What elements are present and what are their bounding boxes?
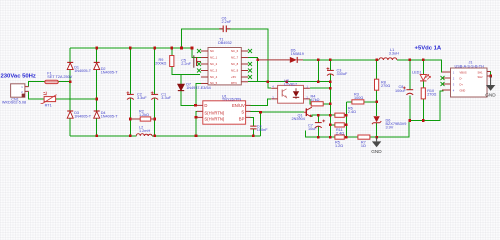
connector CN1 — [2, 84, 29, 105]
wire LED1 R10 chain — [422, 60, 424, 121]
svg-text:EN/UV: EN/UV — [232, 103, 245, 108]
resistor R9 — [155, 56, 174, 67]
inductor L2 — [136, 126, 152, 136]
svg-text:270Ω: 270Ω — [381, 84, 390, 88]
capacitor C6 — [219, 16, 232, 32]
wire U2 pin3 jog to R4 — [310, 99, 311, 104]
wire bridge column2 mid — [96, 70, 98, 111]
junction AC2 — [95, 98, 98, 101]
svg-text:WKDS02-5.08: WKDS02-5.08 — [2, 101, 26, 105]
svg-text:DB4932: DB4932 — [218, 41, 232, 45]
svg-text:SH1: SH1 — [478, 70, 484, 74]
zener diode D6 — [372, 116, 407, 129]
svg-text:SH2: SH2 — [478, 75, 484, 79]
junction vertical shunt mid row left — [329, 124, 332, 127]
junction D5 anode corner — [256, 59, 259, 62]
LED LED1 — [412, 71, 431, 81]
svg-text:1Ω: 1Ω — [361, 144, 366, 148]
svg-text:2.2nF: 2.2nF — [222, 20, 232, 24]
no-connect X marks T1 right pins — [248, 49, 252, 79]
wire R9 bottom to clamp node — [172, 67, 200, 75]
junction ground rail R10 — [422, 119, 425, 122]
inductor L1 — [379, 48, 399, 60]
wire top DC+ rail — [70, 47, 192, 49]
junction R2 left — [129, 118, 132, 121]
svg-text:NC_1: NC_1 — [210, 56, 218, 60]
svg-text:+5Vdc 1A: +5Vdc 1A — [415, 46, 442, 52]
junction Q1 base tap — [259, 111, 262, 114]
svg-text:NC_8: NC_8 — [231, 62, 239, 66]
junction AC1 — [69, 80, 72, 83]
svg-text:LTV817: LTV817 — [284, 82, 297, 86]
svg-text:1N5819: 1N5819 — [291, 52, 304, 56]
capacitor C4 — [250, 124, 268, 131]
junction +5V rail R8 — [375, 59, 378, 62]
svg-text:NC_6: NC_6 — [231, 49, 239, 53]
svg-text:NC_7: NC_7 — [231, 56, 239, 60]
svg-text:1N4005-T: 1N4005-T — [74, 114, 92, 118]
svg-text:47kΩ: 47kΩ — [311, 98, 320, 102]
resistor R6 shunt top — [335, 107, 356, 118]
wire secondary ground rail with stub — [306, 91, 444, 137]
junction ground rail shunt right — [345, 136, 348, 139]
junction rail R9 — [171, 47, 174, 50]
svg-text:RT1: RT1 — [45, 104, 52, 108]
junction feedback C6 tap — [267, 80, 270, 83]
svg-text:1N4005-T: 1N4005-T — [101, 114, 119, 118]
wire C1 bottom through R2 node to bottom rail — [154, 98, 156, 136]
junction ground rail C7 — [317, 136, 320, 139]
junction vertical shunt top row left — [329, 114, 332, 117]
wire C7 top lead — [317, 115, 319, 122]
junction ground rail D6 GND — [375, 136, 378, 139]
wire T1 pin6 to U1 drain — [196, 84, 201, 106]
resistor R10 — [421, 88, 436, 99]
capacitor C2 — [127, 91, 148, 100]
junction ground rail shunt left — [329, 136, 332, 139]
wire C3 top lead — [329, 60, 331, 70]
wire C6 bypass branch up and across — [182, 29, 268, 82]
junction R3 to zener chain — [375, 101, 378, 104]
wire rail corner down to T1 pin2 — [192, 48, 201, 58]
wire bridge column2 top — [96, 48, 98, 62]
svg-text:GND: GND — [485, 92, 496, 97]
wire shunt right vertical — [345, 102, 347, 137]
svg-text:RTN: RTN — [231, 81, 237, 85]
junction shunt top row right — [345, 114, 348, 117]
svg-text:NC_4: NC_4 — [210, 75, 218, 79]
wire R8 zener chain — [376, 60, 378, 137]
diode D4 — [94, 111, 119, 119]
junction rail C6 branch — [180, 47, 183, 50]
svg-text:1N4005-T: 1N4005-T — [74, 69, 92, 73]
ground symbol USB shield — [485, 76, 496, 97]
wire U1 source pins to bottom rail — [195, 111, 198, 135]
svg-text:10uF: 10uF — [308, 127, 317, 131]
svg-text:BP: BP — [239, 117, 245, 122]
svg-text:3.3uF: 3.3uF — [137, 96, 147, 100]
wire bridge column2 bottom — [96, 118, 98, 135]
junction rail C1 — [153, 47, 156, 50]
wire R4 right lead to vertical — [323, 103, 330, 105]
svg-text:LED1: LED1 — [412, 71, 422, 75]
wire bridge column1 top — [69, 48, 71, 62]
svg-text:230Vac 50Hz: 230Vac 50Hz — [1, 73, 36, 79]
svg-text:1N4937-E3/54: 1N4937-E3/54 — [186, 86, 211, 90]
svg-text:1N4005-T: 1N4005-T — [101, 70, 119, 74]
junction +5V rail drop — [317, 59, 320, 62]
junction feedback end C3 vertical — [329, 80, 332, 83]
junction bottom rail L2 left — [129, 135, 132, 138]
junction +5V rail C3 — [329, 59, 332, 62]
junction ground rail C8 — [409, 119, 412, 122]
wire Q1 emitter to C7 node — [312, 115, 319, 117]
wire emitter node across to shunt vertical — [318, 114, 330, 116]
svg-text:3.3uH: 3.3uH — [389, 52, 399, 56]
capacitor C1 — [151, 91, 172, 100]
svg-text:100Ω: 100Ω — [354, 96, 363, 100]
svg-text:NC_2: NC_2 — [210, 62, 218, 66]
wire secondary feedback net y82 — [248, 81, 330, 83]
svg-text:1.2Ω: 1.2Ω — [335, 144, 343, 148]
no-connect X marks T1 left pins — [197, 49, 201, 73]
wire C2 branch from rail — [129, 48, 131, 94]
wire CN1 pin2 to thermistor RT1 — [29, 91, 44, 99]
capacitor C3 — [327, 67, 348, 76]
capacitor C8 — [395, 85, 413, 95]
wire C1 branch from rail — [154, 48, 156, 94]
svg-text:NC_5: NC_5 — [210, 81, 218, 85]
wire D7 cathode down to drain net — [181, 91, 197, 106]
junction rail corner C5 — [191, 47, 194, 50]
junction bottom rail D4 — [95, 135, 98, 138]
junction rail D2 — [95, 47, 98, 50]
svg-text:200kΩ: 200kΩ — [155, 61, 166, 65]
resistor R7 — [358, 135, 370, 148]
wire fuse F1 to bridge node AC1 — [58, 81, 70, 83]
svg-text:100uF: 100uF — [395, 89, 406, 93]
wire USB shield to GND — [487, 72, 491, 77]
wire bottom DC- rail left of choke L2 — [70, 135, 136, 137]
svg-text:NC_3: NC_3 — [210, 69, 218, 73]
svg-text:2.4Ω: 2.4Ω — [348, 110, 356, 114]
wire C4 bottom to rail — [252, 129, 254, 136]
wire Q1 base line — [261, 111, 304, 113]
wire +5V rail drop to feedback net — [317, 60, 319, 82]
wire U1 S pin down to bottom rail — [250, 111, 261, 135]
wire +5V output rail — [303, 60, 442, 72]
junction bottom rail U1 source — [195, 135, 198, 138]
thermistor RT1 — [41, 92, 57, 108]
junction drain node — [194, 104, 197, 107]
capacitor C5 — [181, 55, 201, 67]
svg-text:270Ω: 270Ω — [427, 92, 436, 96]
wire C3 bottom long vertical through shunt resistors — [329, 74, 331, 137]
optocoupler U2 — [271, 79, 310, 103]
fuse F1 — [45, 72, 73, 84]
wire C8 leads — [409, 60, 411, 121]
svg-text:+5V: +5V — [231, 75, 236, 79]
no-connect X marks USB data pins — [441, 76, 445, 86]
junction shunt mid row right — [345, 124, 348, 127]
svg-text:2.2nF: 2.2nF — [181, 62, 191, 66]
resistor R5 shunt bottom — [335, 135, 344, 148]
junction rail C2 — [129, 47, 132, 50]
wire bottom DC- rail right of choke L2 — [152, 135, 260, 137]
wire bridge column1 bottom — [69, 118, 71, 135]
svg-text:GND: GND — [371, 149, 382, 154]
junction feedback rail drop — [317, 80, 320, 83]
transistor Q1 — [292, 107, 312, 121]
junction vertical R4 row — [329, 103, 332, 106]
wire R9 top lead — [171, 48, 173, 56]
svg-text:TNY267PN: TNY267PN — [222, 98, 241, 102]
wire U1 BP to C4 — [250, 117, 254, 126]
svg-text:NC: NC — [210, 49, 214, 53]
junction +5V rail C8 — [409, 59, 412, 62]
capacitor C7 — [308, 120, 325, 132]
junction U1 source pins — [195, 116, 198, 119]
svg-text:1.2kΩ: 1.2kΩ — [139, 113, 149, 117]
resistor R4 — [311, 94, 324, 105]
svg-text:100nF: 100nF — [257, 128, 268, 132]
junction USB shield — [489, 75, 492, 78]
svg-text:330uF: 330uF — [337, 72, 348, 76]
wire U1 EN/UV to opto U2 emitter — [250, 99, 272, 106]
junction bottom rail L2 right — [153, 135, 156, 138]
wire CN1 pin1 to fuse F1 — [29, 82, 45, 87]
wire RT1 to bridge node AC2 — [56, 98, 97, 100]
wire C2 bottom through R2 node to L2 — [129, 98, 131, 136]
resistor R11 shunt mid — [335, 123, 344, 136]
svg-text:D-: D- — [460, 76, 463, 80]
junction vertical U2 row — [329, 87, 332, 90]
svg-text:S: S — [241, 109, 244, 114]
wire clamp node down to diode D7 — [180, 74, 182, 84]
op-amp U1 TNY267PN — [197, 94, 251, 124]
diode D1 — [67, 62, 92, 73]
junction bottom rail C4 — [252, 135, 255, 138]
junction vertical emitter row — [317, 114, 320, 117]
svg-text:S(HVRTN): S(HVRTN) — [204, 117, 225, 122]
resistor R3 — [352, 92, 364, 104]
wire C7 bottom lead — [317, 126, 319, 137]
svg-text:S(HVRTN): S(HVRTN) — [204, 111, 225, 116]
wire Q1 collector jog — [311, 104, 313, 107]
svg-text:2N3904: 2N3904 — [292, 117, 305, 121]
svg-text:GND: GND — [460, 88, 466, 92]
wire tap to U2 pin1 — [268, 82, 271, 89]
transformer T1 — [197, 37, 252, 85]
svg-text:D+: D+ — [460, 82, 464, 86]
wire shunt resistor top leads — [330, 115, 346, 125]
wire T1 secondary pin2 corner down — [248, 58, 258, 82]
diode D3 — [67, 111, 92, 119]
ground symbol secondary — [371, 137, 382, 154]
svg-text:D: D — [204, 103, 207, 108]
diode D5 — [258, 48, 304, 63]
wire GND stub below D6 — [376, 137, 378, 140]
diode D2 — [94, 62, 119, 74]
svg-text:NC_9: NC_9 — [231, 69, 239, 73]
resistor R8 — [375, 79, 391, 90]
wire R3 leads — [346, 101, 376, 103]
svg-text:3.9V: 3.9V — [386, 125, 394, 129]
svg-text:VBUS: VBUS — [460, 70, 467, 74]
USB connector J1 — [441, 60, 491, 97]
diode D7 — [178, 83, 211, 91]
svg-text:USB-A-S-S-B-TH: USB-A-S-S-B-TH — [455, 64, 485, 68]
svg-text:SET T2A 250V: SET T2A 250V — [47, 75, 72, 79]
junction +5V rail LED1 — [422, 59, 425, 62]
svg-text:3.3uF: 3.3uF — [161, 96, 171, 100]
svg-text:1.2mH: 1.2mH — [139, 129, 150, 133]
resistor R2 — [130, 110, 154, 122]
wire bridge column1 mid — [69, 70, 71, 111]
junction R2 right — [153, 118, 156, 121]
junction feedback mid — [286, 80, 289, 83]
wire U2 pin4 row across — [310, 87, 331, 89]
